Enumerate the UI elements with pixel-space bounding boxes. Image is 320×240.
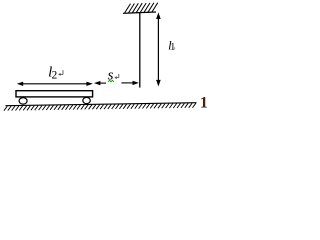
rod (hanging from ceiling) — [139, 13, 141, 88]
dimension arrow s left segment — [94, 81, 106, 85]
svg-text:1: 1 — [200, 94, 207, 111]
ceiling hatching — [125, 3, 158, 13]
dimension arrow l2 (horizontal double arrow over cart) — [17, 82, 93, 86]
label l1 — [168, 38, 175, 53]
cart body — [16, 91, 93, 97]
cart left wheel — [19, 98, 27, 104]
spellcheck squiggle under s — [108, 80, 114, 82]
dimension arrow s right segment — [121, 81, 138, 85]
ground hatching — [4, 103, 196, 111]
ground line — [6, 103, 197, 106]
pilcrow return mark after s — [114, 74, 119, 79]
ceiling line — [123, 12, 156, 13]
svg-text:2: 2 — [52, 70, 58, 82]
dimension arrow l1 (vertical double arrow) — [156, 12, 161, 86]
label l2 — [48, 65, 57, 82]
cart right wheel — [83, 97, 91, 103]
pilcrow return mark after l2 — [58, 70, 63, 76]
